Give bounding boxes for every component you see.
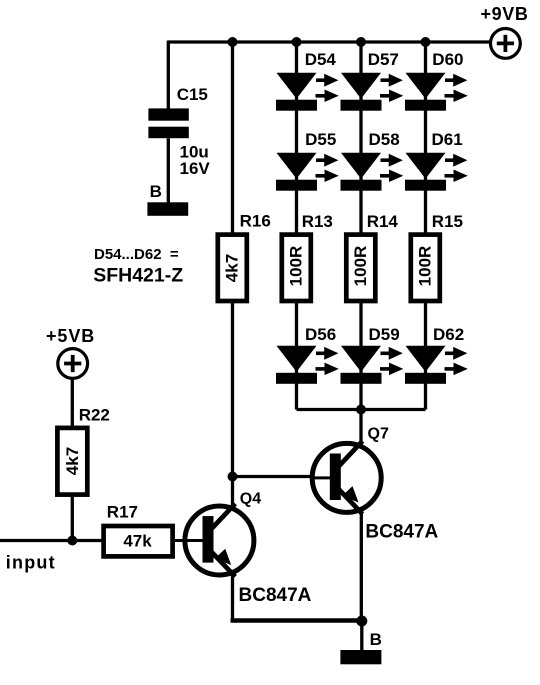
svg-text:BC847A: BC847A xyxy=(239,585,312,606)
svg-text:+9VB: +9VB xyxy=(481,4,529,24)
wire emitter bottom rail xyxy=(231,618,362,623)
resistor R16 4k7 xyxy=(218,212,271,302)
resistor R15 100R xyxy=(411,212,463,301)
svg-text:Q7: Q7 xyxy=(368,426,389,443)
wire LED column 2 xyxy=(359,42,362,410)
wire input rail xyxy=(0,539,102,542)
LED D56 xyxy=(276,325,339,384)
svg-text:D60: D60 xyxy=(432,50,463,69)
LED D62 xyxy=(405,325,468,384)
svg-text:100R: 100R xyxy=(416,246,435,287)
node junction top rail / column D57 xyxy=(356,37,366,47)
svg-text:Q4: Q4 xyxy=(240,491,261,508)
svg-text:100R: 100R xyxy=(351,246,370,287)
svg-text:B: B xyxy=(370,630,382,649)
LED D58 xyxy=(341,130,404,191)
svg-text:4k7: 4k7 xyxy=(223,254,242,282)
svg-text:R22: R22 xyxy=(79,406,110,425)
wire Q7 base from node xyxy=(233,475,312,478)
svg-text:16V: 16V xyxy=(180,159,211,178)
wire LED column 3 xyxy=(424,42,427,410)
LED D60 xyxy=(405,50,468,111)
wire R16 top xyxy=(231,42,234,234)
node junction bottom rail / ground xyxy=(356,616,367,627)
wire Q7 collector xyxy=(359,410,362,447)
svg-text:R13: R13 xyxy=(302,212,333,231)
resistor R17 47k xyxy=(104,503,173,557)
wire LED column 1 xyxy=(295,42,298,410)
svg-text:D58: D58 xyxy=(369,130,400,149)
resistor R13 100R xyxy=(282,212,333,301)
svg-text:C15: C15 xyxy=(177,85,208,104)
ground B (below C15) xyxy=(147,182,188,216)
svg-text:BC847A: BC847A xyxy=(365,522,438,543)
LED D59 xyxy=(341,325,404,384)
node junction input / R22 xyxy=(67,536,77,546)
wire R16 bottom to node xyxy=(231,302,234,478)
node junction top rail / column D60 xyxy=(421,37,431,47)
svg-text:R17: R17 xyxy=(107,503,138,522)
wire R22 to input node xyxy=(71,495,74,541)
transistor Q4 BC847A xyxy=(175,491,312,607)
svg-text:D61: D61 xyxy=(432,130,463,149)
+5VB supply terminal xyxy=(46,326,95,378)
svg-text:D57: D57 xyxy=(368,50,399,69)
wire LED bottom rail xyxy=(297,408,426,411)
capacitor C15 xyxy=(148,41,210,204)
svg-text:R14: R14 xyxy=(367,212,399,231)
resistor R22 4k7 xyxy=(57,406,109,495)
wire top rail +9V xyxy=(168,40,489,43)
svg-text:D56: D56 xyxy=(305,325,336,344)
svg-text:D54: D54 xyxy=(305,50,337,69)
LED D54 xyxy=(276,50,339,111)
wire Q7 emitter xyxy=(360,510,363,621)
wire Q4 emitter xyxy=(231,572,234,621)
svg-text:D54...D62 =: D54...D62 = xyxy=(94,246,179,263)
node junction LED rail / Q7 collector xyxy=(356,405,366,415)
svg-text:+5VB: +5VB xyxy=(46,326,95,346)
svg-text:R16: R16 xyxy=(240,212,271,231)
svg-text:B: B xyxy=(150,182,162,201)
svg-text:SFH421-Z: SFH421-Z xyxy=(93,265,183,287)
node junction top rail / column D54 xyxy=(292,37,302,47)
svg-text:D55: D55 xyxy=(305,130,336,149)
node junction R16 / Q4 collector / Q7 base xyxy=(228,472,238,482)
svg-text:R15: R15 xyxy=(432,212,463,231)
svg-text:4k7: 4k7 xyxy=(63,447,82,475)
svg-text:D62: D62 xyxy=(433,325,464,344)
LED D57 xyxy=(341,50,404,111)
svg-text:47k: 47k xyxy=(123,532,152,551)
svg-text:100R: 100R xyxy=(287,246,306,287)
ground B (bottom) xyxy=(340,630,381,665)
+9VB supply terminal xyxy=(481,4,529,58)
wire to ground xyxy=(360,621,363,651)
resistor R14 100R xyxy=(346,212,398,301)
node junction top rail / R16 xyxy=(228,37,238,47)
svg-text:D59: D59 xyxy=(369,325,400,344)
LED D61 xyxy=(405,130,468,191)
label D54...D62 = SFH421-Z xyxy=(93,246,183,287)
svg-text:input: input xyxy=(6,553,56,573)
transistor Q7 BC847A xyxy=(311,426,439,543)
LED D55 xyxy=(276,130,339,191)
wire +5VB to R22 xyxy=(71,379,74,428)
wire Q4 collector xyxy=(231,477,234,509)
